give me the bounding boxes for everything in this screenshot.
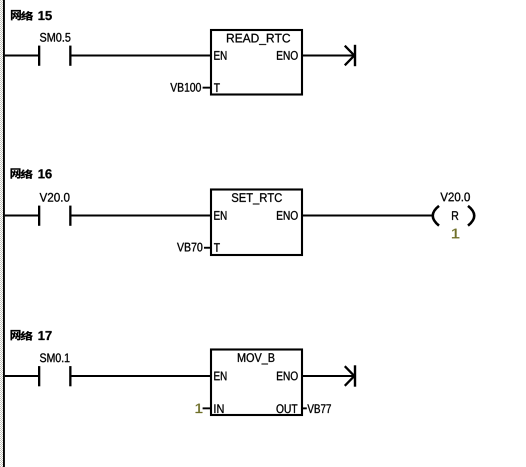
operand VB100 xyxy=(170,83,201,92)
tick VB70 to T xyxy=(204,247,211,249)
tick VB100 to T xyxy=(203,87,211,89)
tick OUT to VB77 xyxy=(302,407,307,409)
coil R letter xyxy=(452,211,458,220)
open branch arrow xyxy=(345,45,356,66)
block MOV_B U3 box xyxy=(211,350,302,416)
contact V20.0 label xyxy=(40,193,70,202)
block MOV_B U3 title xyxy=(238,353,275,364)
open branch arrow xyxy=(345,365,356,386)
wire block to open arrow xyxy=(303,375,354,377)
contact SM0.5 right bar xyxy=(69,46,71,66)
network 15 label xyxy=(11,10,52,21)
coil R operand 1 xyxy=(452,229,459,239)
block SET_RTC U2 box xyxy=(211,190,302,256)
wire contact to block READ_RTC U1 xyxy=(72,55,212,57)
contact SM0.5 label xyxy=(40,33,70,42)
wire contact to block MOV_B U3 xyxy=(72,375,212,377)
operand VB70 xyxy=(177,243,202,252)
contact SM0.1 left bar xyxy=(38,366,40,386)
contact SM0.5 left bar xyxy=(38,46,40,66)
operand 1 at IN xyxy=(196,404,203,413)
contact V20.0 left bar xyxy=(38,206,40,226)
network 16 label xyxy=(10,168,51,179)
block MOV_B U3 pin EN xyxy=(214,372,226,381)
wire rail to contact SM0.1 xyxy=(5,375,38,377)
left power rail xyxy=(3,0,5,467)
block MOV_B pin IN xyxy=(214,404,223,413)
block SET_RTC U2 title xyxy=(232,193,282,204)
block READ_RTC pin T xyxy=(214,83,220,92)
block MOV_B pin OUT xyxy=(277,404,298,413)
wire block to open arrow xyxy=(303,55,354,57)
left margin strip xyxy=(0,0,3,467)
contact V20.0 right bar xyxy=(69,206,71,226)
block READ_RTC U1 pin EN xyxy=(214,51,226,60)
coil R operand label V20.0 xyxy=(440,193,470,202)
wire rail to contact V20.0 xyxy=(5,215,38,217)
block READ_RTC U1 title xyxy=(227,34,290,45)
network 17 label xyxy=(10,330,51,341)
wire block to coil xyxy=(303,215,432,217)
coil R right paren xyxy=(468,206,474,226)
block SET_RTC U2 pin ENO xyxy=(277,211,298,220)
coil R left paren xyxy=(433,206,439,226)
wire rail to contact SM0.5 xyxy=(5,55,38,57)
contact SM0.1 label xyxy=(40,353,70,362)
contact SM0.1 right bar xyxy=(69,366,71,386)
block SET_RTC U2 pin EN xyxy=(214,211,226,220)
operand VB77 xyxy=(307,404,331,413)
tick 1 to IN xyxy=(203,407,211,409)
wire contact to block SET_RTC U2 xyxy=(72,215,212,217)
block MOV_B U3 pin ENO xyxy=(277,372,298,381)
block READ_RTC U1 box xyxy=(211,30,302,95)
block READ_RTC U1 pin ENO xyxy=(277,51,298,60)
block SET_RTC pin T xyxy=(214,243,220,252)
